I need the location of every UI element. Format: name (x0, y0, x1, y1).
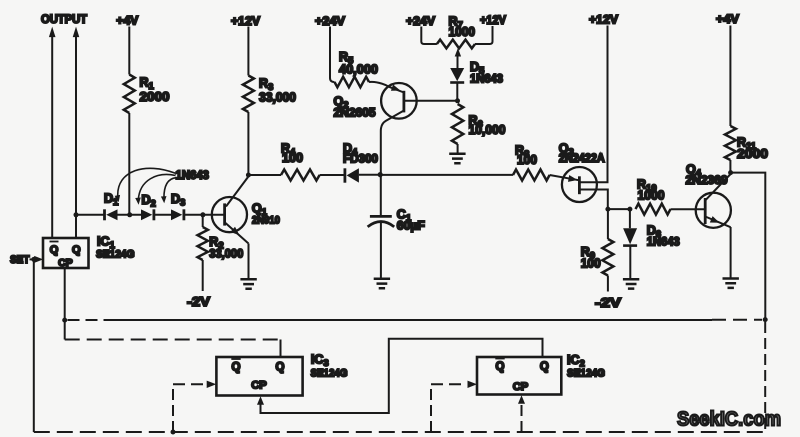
node R9/D6/R10 (left) (605, 207, 610, 212)
wire R10 to Q4 base (671, 208, 705, 210)
power rail +24V (R5) (315, 14, 345, 28)
svg-text:OUTPUT: OUTPUT (41, 14, 87, 26)
wire R1 to diode chain node (128, 113, 130, 214)
resistor R8 100 (513, 144, 550, 181)
svg-text:1N643: 1N643 (470, 74, 503, 86)
svg-text:+12V: +12V (231, 14, 260, 28)
power rail +12V (R7 right) (480, 15, 506, 27)
wire IC1 CP down (64, 268, 66, 320)
feedback line CP row (to Q4 node) (68, 319, 763, 321)
svg-text:1N643: 1N643 (176, 170, 210, 182)
wire Q2 base to D5/R6 node (404, 100, 458, 102)
svg-text:2N2422A: 2N2422A (559, 153, 605, 165)
resistor R2 33,000 (198, 215, 244, 291)
svg-text:40,000: 40,000 (339, 63, 378, 77)
wire IC2 Q to IC3 CP (257, 339, 543, 413)
ground (below Q4) (723, 279, 739, 288)
svg-text:CP: CP (513, 381, 529, 393)
ground (below R6) (449, 154, 465, 163)
svg-text:Q: Q (72, 244, 81, 256)
diode D6 1N643 (623, 209, 680, 279)
dashed wire bus to IC2 CP (518, 395, 525, 432)
svg-text:2N2369: 2N2369 (686, 173, 728, 187)
svg-text:Q: Q (496, 361, 505, 373)
node D6/R10 (627, 207, 632, 212)
diode D1 1N643 (104, 192, 119, 221)
power rail +4V (right) (716, 12, 739, 26)
svg-text:+24V: +24V (315, 14, 345, 28)
svg-text:+4V: +4V (116, 14, 138, 28)
potentiometer R7 1000 (421, 15, 492, 49)
wire IC1 Q pin to diode chain (74, 212, 104, 217)
ground (below Q1) (240, 279, 256, 288)
svg-text:Q: Q (232, 362, 241, 374)
resistor R5 40,000 (335, 50, 379, 87)
svg-text:33,000: 33,000 (259, 91, 296, 105)
svg-text:100: 100 (581, 257, 601, 271)
ground (below C1) (374, 279, 390, 288)
resistor R1 2000 (124, 75, 170, 114)
wire Q4 collector node to right vertical (731, 173, 766, 319)
svg-text:+24V: +24V (406, 14, 435, 28)
svg-text:60µF: 60µF (397, 219, 425, 233)
svg-text:1N643: 1N643 (647, 237, 680, 249)
node D5/R6/Q2 base (455, 98, 460, 103)
wire/arrow IC1 Qbar to OUTPUT (49, 27, 56, 238)
wire +12V to R3 (247, 27, 249, 76)
main wire node R4 row: R4 100 (248, 142, 319, 181)
wire R4 to D4 (320, 174, 344, 176)
svg-text:SE124G: SE124G (567, 368, 605, 380)
node C1 / Q2 collector / D4 (378, 172, 383, 177)
bottom bus (dashed) (34, 431, 765, 433)
diode D2 1N643 (141, 193, 156, 221)
wire Q4 emitter to ground (730, 227, 732, 279)
node bus / IC3 input (171, 430, 176, 435)
callout arc to D3 (161, 178, 176, 204)
svg-text:1000: 1000 (449, 25, 476, 39)
wire R6 to ground (457, 144, 459, 154)
wire +4V to R1 (128, 27, 130, 75)
power rail +4V (left) (116, 14, 138, 28)
wire R11 to Q4 collector node (729, 160, 731, 173)
svg-text:100: 100 (282, 151, 303, 165)
wire +24V down to R5 (330, 27, 335, 83)
dashed wire IC1 CP to IC3 Q (65, 320, 281, 357)
svg-text:D2: D2 (142, 193, 156, 210)
wire R3 to Q1 collector node (247, 112, 249, 175)
resistor R9 100 (581, 209, 614, 291)
diode chain label 1N643 (176, 170, 210, 182)
wire R5 to Q2 emitter (369, 82, 404, 93)
resistor R3 33,000 (243, 76, 296, 113)
wire Q1 emitter to ground (248, 244, 250, 280)
wire/arrow IC1 Q to OUTPUT (73, 27, 80, 238)
wire D2 to D3 (154, 214, 171, 216)
transistor Q2 2N2605 (334, 83, 417, 173)
svg-text:SE124G: SE124G (311, 368, 348, 380)
svg-text:Q: Q (50, 244, 59, 256)
diode D4 FD300 (343, 142, 378, 183)
svg-text:33,000: 33,000 (209, 247, 243, 261)
dashed input to IC3 (from bus) (173, 381, 216, 432)
svg-text:-2V: -2V (595, 295, 621, 310)
dashed wire right vertical down to bus (764, 322, 766, 432)
svg-text:2N910: 2N910 (252, 215, 280, 227)
resistor R6 10,000 (452, 104, 506, 144)
svg-text:1000: 1000 (638, 189, 665, 203)
wire D1 to D2 with R1 node (118, 212, 142, 217)
transistor Q4 2N2369 (686, 163, 731, 228)
capacitor C1 60uF (368, 174, 425, 279)
supply -2V (below R2) (187, 294, 210, 309)
svg-text:2000: 2000 (737, 146, 768, 161)
flip-flop IC2 SE124G (477, 353, 605, 395)
node R11 / Q4 collector (728, 170, 733, 175)
watermark SeekIC.com (677, 409, 781, 431)
svg-text:+4V: +4V (716, 12, 739, 26)
svg-text:+12V: +12V (589, 13, 618, 27)
diode D3 1N643 (171, 192, 185, 220)
svg-text:10,000: 10,000 (469, 123, 506, 137)
wire node to D6 node (608, 208, 630, 210)
svg-text:2N2605: 2N2605 (334, 106, 376, 120)
svg-text:CP: CP (58, 257, 73, 269)
node IC1 CP / feedback (62, 318, 67, 323)
svg-text:Q: Q (276, 362, 285, 374)
flip-flop IC3 SE124G (216, 353, 347, 396)
svg-text:SE124G: SE124G (96, 249, 135, 261)
svg-text:100: 100 (517, 153, 537, 167)
svg-text:SET: SET (10, 254, 30, 266)
wire D4 to C1 node (359, 174, 381, 176)
wire R8 to Q3 emitter (550, 175, 580, 180)
wire +12V down to Q3 collector (579, 26, 607, 183)
input SET (10, 254, 43, 266)
wire SET down to bottom bus (33, 259, 35, 432)
R7 wiper arrow (455, 48, 461, 69)
supply -2V (below R9) (595, 295, 621, 310)
dashed input to IC2 (from bus) (431, 381, 477, 432)
node right vertical / feedback (763, 317, 768, 322)
svg-text:CP: CP (251, 380, 267, 392)
svg-text:SeekIC.com: SeekIC.com (677, 409, 781, 431)
svg-text:+12V: +12V (480, 15, 506, 27)
svg-text:-2V: -2V (187, 294, 210, 309)
wire D3 to Q1 base with R2 node (184, 212, 224, 217)
wire D5 to Q2 base node (456, 83, 458, 101)
svg-text:2000: 2000 (140, 89, 170, 104)
svg-text:D1: D1 (104, 192, 119, 209)
transistor Q1 2N910 (212, 177, 280, 244)
callout arc to D2 (135, 175, 175, 205)
resistor R10 1000 (636, 178, 671, 215)
power rail +12V (Q3) (589, 13, 618, 27)
node Q1 collector / R4 (246, 173, 251, 178)
power rail +12V (left, R3) (231, 14, 260, 28)
power rail +24V (R7 left) (406, 14, 435, 28)
transistor Q3 2N2422A (559, 142, 608, 210)
svg-text:D3: D3 (171, 192, 185, 209)
svg-text:FD300: FD300 (343, 152, 378, 166)
ground (below D6) (623, 279, 639, 288)
svg-text:Q: Q (540, 361, 549, 373)
resistor R11 2000 (725, 126, 768, 161)
flip-flop IC1 SE124G (43, 235, 135, 270)
wire C1 node to R8 (381, 174, 513, 176)
output terminal OUTPUT (41, 14, 87, 26)
diode D5 1N643 (450, 60, 503, 86)
callout arc to D1 (115, 168, 176, 202)
wire +4V to R11 (729, 26, 731, 127)
